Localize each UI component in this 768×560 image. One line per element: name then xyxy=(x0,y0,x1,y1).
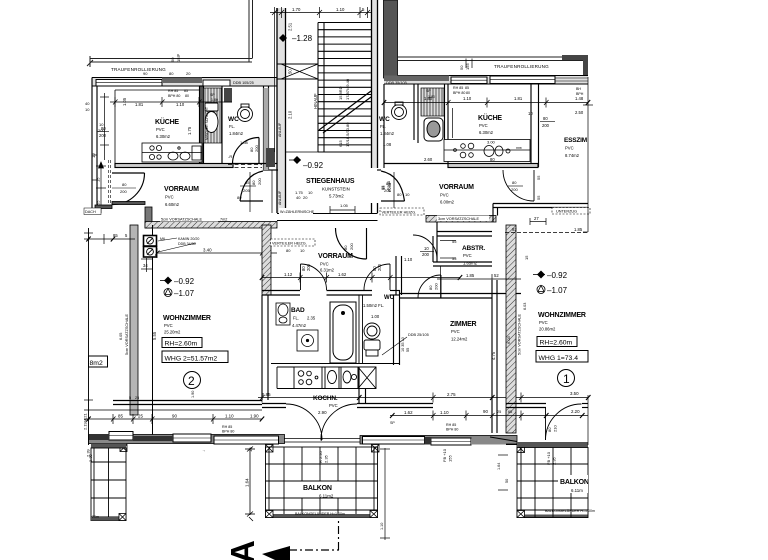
svg-text:4.47m2: 4.47m2 xyxy=(292,323,307,328)
hatched wall below vorraum right xyxy=(426,216,496,223)
top wall band right flat core xyxy=(384,76,588,85)
room label 8m2 cut at left edge xyxy=(89,356,108,367)
svg-text:KÜCHE: KÜCHE xyxy=(478,113,502,122)
dim 1.85 52 below abstr xyxy=(437,274,521,284)
svg-text:10: 10 xyxy=(99,122,104,127)
svg-text:1.90: 1.90 xyxy=(250,414,259,419)
label W=ZAEHLERNISCHE xyxy=(279,208,313,214)
shaft with vertical hatch (left) xyxy=(204,88,222,143)
door arc right flat entry xyxy=(377,170,405,212)
svg-text:90: 90 xyxy=(143,71,148,76)
washing machine bad xyxy=(297,330,318,351)
left flat outer west wall upper xyxy=(92,78,97,212)
label 5cm VORSATZSCHALE xyxy=(160,216,218,222)
svg-text:1.84m2: 1.84m2 xyxy=(229,131,244,136)
svg-text:80: 80 xyxy=(185,94,189,98)
extra dim tick slashes row y102 and others xyxy=(86,100,590,422)
svg-text:1.65m2: 1.65m2 xyxy=(463,261,478,266)
svg-text:85: 85 xyxy=(113,233,118,238)
svg-text:10 35 10: 10 35 10 xyxy=(401,337,405,352)
svg-text:KOCHN.: KOCHN. xyxy=(313,395,338,402)
svg-text:KAMIN 20/20: KAMIN 20/20 xyxy=(178,237,199,241)
fridge symbol with X xyxy=(358,367,376,389)
dim 80 small upper left of vorraum xyxy=(286,248,305,253)
wc right door labels xyxy=(381,181,392,193)
svg-text:15: 15 xyxy=(524,255,529,260)
dim 50/155 rotated right stair area xyxy=(459,63,470,70)
balcony left bottom posts xyxy=(119,514,126,521)
balcony right posts xyxy=(517,511,525,518)
toilet right flat (dark) xyxy=(424,118,443,141)
svg-text:25: 25 xyxy=(135,396,139,400)
svg-text:1.10: 1.10 xyxy=(336,7,345,12)
eaves outline top-left (TRAUFE) xyxy=(87,0,253,67)
window sill inner lines top band xyxy=(96,80,555,442)
svg-text:1.80: 1.80 xyxy=(211,98,218,102)
svg-text:1.00: 1.00 xyxy=(371,314,380,319)
stove right flat xyxy=(454,143,474,158)
svg-text:PVC: PVC xyxy=(539,320,548,325)
svg-text:1.80: 1.80 xyxy=(428,95,435,99)
small tick near balcony bottom left xyxy=(249,517,253,521)
room label WOHNZIMMER left xyxy=(163,315,211,335)
svg-text:↓: ↓ xyxy=(201,450,206,452)
room label STIEGENHAUS xyxy=(306,178,355,199)
kitchen counter left flat xyxy=(142,143,202,162)
svg-text:1.62: 1.62 xyxy=(404,410,413,415)
svg-text:200: 200 xyxy=(542,123,550,128)
room label ZIMMER xyxy=(450,321,477,342)
svg-text:5cm VORSATZSCHALE: 5cm VORSATZSCHALE xyxy=(125,313,129,355)
svg-text:17/87/49.40: 17/87/49.40 xyxy=(345,78,350,100)
window dim 80/200 right xyxy=(540,116,555,128)
svg-text:1.62: 1.62 xyxy=(338,272,347,277)
abstr top wall xyxy=(437,232,492,237)
svg-text:25.20m2: 25.20m2 xyxy=(164,330,181,335)
svg-text:RH 85: RH 85 xyxy=(446,423,456,427)
svg-text:55: 55 xyxy=(452,239,457,244)
svg-text:80: 80 xyxy=(343,245,348,250)
door arc kueche right to vorraum xyxy=(503,170,534,201)
svg-text:2.39: 2.39 xyxy=(88,453,93,462)
esszimmer/wohnzimmer wall with UNTERZUG xyxy=(516,204,588,208)
svg-text:80: 80 xyxy=(251,180,256,185)
wall kueche west lining xyxy=(115,90,200,167)
svg-text:8.74m2: 8.74m2 xyxy=(565,153,580,158)
svg-text:1.05: 1.05 xyxy=(340,203,349,208)
kamin boxes xyxy=(144,236,157,258)
kitchen counter right flat xyxy=(444,140,530,162)
svg-text:1: 1 xyxy=(563,372,570,386)
vertical dim line west of vorraum xyxy=(96,162,106,213)
top wall band left flat core xyxy=(92,78,277,87)
balcony right labels xyxy=(545,475,595,513)
wall dark segment right of stair xyxy=(384,76,449,82)
svg-text:6.05: 6.05 xyxy=(119,333,123,340)
svg-text:6.00m2: 6.00m2 xyxy=(440,200,455,205)
kitchen counter band center (left flat Kochnische) xyxy=(271,364,400,389)
svg-text:2.75: 2.75 xyxy=(447,392,456,397)
svg-text:200: 200 xyxy=(99,133,107,138)
svg-text:55: 55 xyxy=(96,200,101,205)
svg-text:PVC: PVC xyxy=(440,193,449,198)
stair labels rotated xyxy=(278,22,350,205)
wall stub between vorraum right and esszimmer xyxy=(493,204,516,223)
svg-text:DDB 105/25: DDB 105/25 xyxy=(233,81,254,85)
left flat right dim column (x250 corridor) verticals xyxy=(271,170,273,213)
svg-text:15: 15 xyxy=(96,177,101,182)
dim row y 56 right flat small ticks xyxy=(466,59,472,69)
center-west hatched wall (vorraum/wohnzimmer divider) xyxy=(262,225,271,295)
landing floor line xyxy=(286,151,319,153)
room label ESSZIMMER xyxy=(564,137,587,158)
wall piece between xyxy=(425,437,432,445)
svg-text:2.20: 2.20 xyxy=(571,409,580,414)
svg-text:WOHNZIMMER: WOHNZIMMER xyxy=(538,312,586,319)
vertical dim line right of left balcony xyxy=(380,448,390,540)
svg-text:200: 200 xyxy=(257,178,262,185)
label KOCHN xyxy=(313,395,338,415)
svg-text:4.75: 4.75 xyxy=(491,351,496,360)
svg-text:WC: WC xyxy=(228,116,239,123)
svg-text:1.05: 1.05 xyxy=(122,97,127,106)
svg-text:–0.92: –0.92 xyxy=(174,277,195,286)
window top WC left xyxy=(203,80,230,86)
svg-text:1.08: 1.08 xyxy=(383,142,392,147)
kochn bottom wall and door arcs to balcony xyxy=(262,404,433,408)
svg-text:6.30m2: 6.30m2 xyxy=(479,130,494,135)
svg-text:FB +10: FB +10 xyxy=(442,448,447,462)
svg-text:–1.07: –1.07 xyxy=(547,286,568,295)
svg-text:TRAUFENROLLIERUNG: TRAUFENROLLIERUNG xyxy=(111,67,166,72)
wall wc east side dark block xyxy=(224,88,232,103)
rotated dim 1B/155 left flat bottom xyxy=(201,447,253,452)
top wall band right flat xyxy=(384,76,588,85)
west exterior wall at vorraum level xyxy=(95,202,152,229)
wall right of shaft xyxy=(445,84,449,164)
dim 3.40 line xyxy=(155,248,277,258)
small texts left flat top window xyxy=(168,87,584,102)
balcony left top attach band xyxy=(91,444,126,449)
svg-text:92: 92 xyxy=(512,227,517,232)
long hatched wall under vorraum (Vorsatzschale) xyxy=(145,222,277,229)
center-west wall lower continuation xyxy=(262,295,268,400)
svg-text:1.64: 1.64 xyxy=(497,463,501,470)
entry door labels xyxy=(251,178,410,197)
svg-text:A: A xyxy=(224,540,261,560)
dim small marks near stair bottom (1.05) xyxy=(330,206,355,214)
stove kochnische xyxy=(294,367,322,389)
svg-text:WHG 2=51.57m2: WHG 2=51.57m2 xyxy=(165,356,218,363)
svg-text:RH=2.60m: RH=2.60m xyxy=(540,340,573,347)
svg-text:BPH 80: BPH 80 xyxy=(446,428,458,432)
svg-text:80: 80 xyxy=(512,180,517,185)
window top-left kitchen xyxy=(96,80,162,87)
svg-text:BALKON: BALKON xyxy=(560,479,589,486)
svg-text:DACH: DACH xyxy=(85,210,96,214)
window bottom zimmer xyxy=(363,437,425,445)
door arc left flat entry xyxy=(240,170,278,212)
svg-text:1.12: 1.12 xyxy=(284,272,293,277)
svg-text:PVC: PVC xyxy=(156,127,165,132)
rotated dim FB+10/155 under zimmer window xyxy=(442,448,453,462)
window bottom 3 (wide) xyxy=(214,436,279,444)
label VERTEILER HEIZG left-lower (dashed box) xyxy=(271,239,316,246)
svg-text:65: 65 xyxy=(508,410,512,414)
svg-text:1.10: 1.10 xyxy=(404,257,413,262)
svg-text:ANLAUF: ANLAUF xyxy=(278,122,282,137)
svg-text:FL.: FL. xyxy=(229,124,235,129)
svg-text:1.85: 1.85 xyxy=(574,227,583,232)
svg-text:80: 80 xyxy=(169,71,174,76)
svg-text:x: x xyxy=(177,52,179,57)
svg-text:2.51: 2.51 xyxy=(288,22,293,31)
svg-text:BALKONGELÄNDER H=1.00m: BALKONGELÄNDER H=1.00m xyxy=(545,509,595,513)
svg-text:W=ZÄHLERNISCHE: W=ZÄHLERNISCHE xyxy=(280,210,315,214)
balcony left narrow xyxy=(91,448,126,521)
toilet left flat xyxy=(205,103,218,133)
svg-text:6.85: 6.85 xyxy=(262,392,271,397)
dim 85 5 top of west wall xyxy=(113,233,128,238)
zimmer door label xyxy=(428,283,439,290)
top wall band left flat with windows xyxy=(92,78,277,87)
svg-text:15.8RD: 15.8RD xyxy=(338,86,343,100)
svg-text:1.90: 1.90 xyxy=(191,391,195,398)
courtyard inner bottom edge xyxy=(398,57,589,61)
svg-text:27: 27 xyxy=(534,216,539,221)
svg-text:205: 205 xyxy=(384,188,391,193)
svg-text:BALKONGELÄNDER H=1.00m: BALKONGELÄNDER H=1.00m xyxy=(295,512,345,516)
dim row y420 left flat xyxy=(84,414,262,424)
stairwell left wall xyxy=(277,8,286,213)
west wall lining band (5cm Vorsatzschale) xyxy=(130,225,153,440)
dims bottom right flat verticals xyxy=(498,455,508,490)
kueche right door label 80/200 xyxy=(508,175,541,200)
window top right kitchen 2 xyxy=(490,76,555,84)
svg-text:PVC: PVC xyxy=(479,123,488,128)
svg-text:85: 85 xyxy=(245,180,250,185)
room label WC left xyxy=(228,116,244,136)
balcony right attach band xyxy=(517,442,588,447)
svg-text:20: 20 xyxy=(303,195,308,200)
wohnzimmer right west wall hatched xyxy=(506,225,516,433)
window bottom 2 xyxy=(173,434,211,442)
svg-text:1.84m2: 1.84m2 xyxy=(380,131,395,136)
box WHG 1=73.45m2 right (cut) xyxy=(536,351,588,363)
room label VORRAUM left xyxy=(164,186,199,207)
svg-text:RH 85: RH 85 xyxy=(453,86,463,90)
dim ticks along y102 left (1.05 mark) xyxy=(92,155,97,180)
wall above bad (y295 from x262-400) drawn above; zimmer top wall xyxy=(400,294,521,299)
svg-text:10: 10 xyxy=(85,107,90,112)
kochn east wall xyxy=(359,367,366,403)
balcony center (left flat) frame xyxy=(266,447,378,518)
dim verticals right flat wohnzimmer east x588 lower xyxy=(587,395,589,445)
svg-text:6.11m: 6.11m xyxy=(571,488,583,493)
toilet lower wc xyxy=(364,323,380,356)
svg-text:10: 10 xyxy=(424,246,429,251)
svg-text:MISCHER SCHACHT: MISCHER SCHACHT xyxy=(205,107,209,140)
svg-text:10: 10 xyxy=(405,192,410,197)
svg-text:40: 40 xyxy=(296,195,301,200)
corner posts black X squares xyxy=(120,445,525,453)
svg-text:RH=2.60m: RH=2.60m xyxy=(165,341,198,348)
svg-text:BPH: BPH xyxy=(576,92,584,96)
svg-text:1.64: 1.64 xyxy=(245,478,250,487)
level marker -1.07 wohnzimmer left xyxy=(164,289,195,299)
svg-text:VORRAUM: VORRAUM xyxy=(439,184,474,191)
svg-text:1.10: 1.10 xyxy=(440,410,449,415)
svg-text:1.81: 1.81 xyxy=(135,102,144,107)
stairwell right wall xyxy=(372,0,378,213)
svg-text:20.86m2: 20.86m2 xyxy=(539,327,556,332)
svg-text:50: 50 xyxy=(505,479,509,483)
svg-text:80: 80 xyxy=(397,192,402,197)
svg-text:10: 10 xyxy=(308,190,313,195)
kueche door label 80/200 xyxy=(112,182,136,194)
svg-text:3.50: 3.50 xyxy=(570,391,579,396)
svg-text:***: *** xyxy=(516,147,522,153)
svg-text:80: 80 xyxy=(490,157,495,162)
bottom wall of lower vorraum xyxy=(262,291,400,296)
svg-text:20: 20 xyxy=(186,71,191,76)
bathtub xyxy=(330,302,356,363)
svg-text:80: 80 xyxy=(547,427,552,432)
svg-text:50: 50 xyxy=(288,69,293,74)
door arc wc left xyxy=(233,138,260,165)
dim 34 vertical xyxy=(141,258,152,272)
svg-text:VORRAUM: VORRAUM xyxy=(318,253,353,260)
svg-text:6.03: 6.03 xyxy=(523,303,527,310)
balcony center bottom rail xyxy=(266,514,378,518)
svg-text:TRAUFENROLLIERUNG: TRAUFENROLLIERUNG xyxy=(494,64,549,69)
balcony left bottom rail xyxy=(91,517,126,521)
svg-text:1.10: 1.10 xyxy=(225,414,234,419)
left edge vertical dim line xyxy=(84,228,93,445)
wall under kueche/wc xyxy=(115,164,277,168)
svg-text:6.60m2: 6.60m2 xyxy=(165,202,180,207)
dim 1.75/10 row above niche xyxy=(295,190,349,208)
box RH=2.60m left xyxy=(162,338,202,348)
stair treads xyxy=(318,23,372,153)
right flat: wc room walls xyxy=(384,84,418,168)
svg-text:ABSTR.: ABSTR. xyxy=(462,245,485,252)
vertical dim column between vorraum and stair (x 274.5) xyxy=(274,18,276,152)
window top esszimmer sill lines xyxy=(555,77,588,79)
box RH=2.60m right xyxy=(537,337,577,347)
svg-text:6.11m2: 6.11m2 xyxy=(319,494,334,499)
svg-text:PVC: PVC xyxy=(164,323,173,328)
svg-text:SP: SP xyxy=(210,93,215,97)
svg-text:2.10: 2.10 xyxy=(288,110,293,119)
svg-text:–0.92: –0.92 xyxy=(303,161,324,170)
right flat vertical dim column x 440 (zimmer) xyxy=(440,266,442,298)
svg-text:UNTERZUG: UNTERZUG xyxy=(556,210,577,214)
room label WC right xyxy=(379,116,395,147)
shaft right flat with hatch xyxy=(421,88,444,116)
svg-text:BPH 80: BPH 80 xyxy=(222,430,234,434)
svg-text:50: 50 xyxy=(170,57,175,62)
room label WOHNZIMMER right xyxy=(538,312,586,332)
svg-text:200: 200 xyxy=(434,283,439,290)
corridor wall hatch strip xyxy=(264,88,269,170)
svg-text:R 2.20: R 2.20 xyxy=(318,450,323,463)
svg-text:8m2: 8m2 xyxy=(90,360,103,367)
svg-text:PVC: PVC xyxy=(320,262,329,267)
svg-text:ZIMMER: ZIMMER xyxy=(450,321,477,328)
svg-text:BH: BH xyxy=(576,87,581,91)
balcony center bottom posts xyxy=(266,511,378,518)
bottom wall band left flat base xyxy=(89,435,518,445)
svg-text:85: 85 xyxy=(184,89,188,93)
label DDB 25/105 with leader xyxy=(382,333,429,355)
svg-text:–1.28: –1.28 xyxy=(292,34,313,43)
svg-text:2.50: 2.50 xyxy=(575,110,584,115)
svg-text:155: 155 xyxy=(448,455,453,462)
door arc vorraum to wc (right leaf) xyxy=(364,264,390,290)
svg-text:80: 80 xyxy=(286,248,291,253)
wc door dims xyxy=(228,140,259,159)
svg-text:RH 85: RH 85 xyxy=(222,425,232,429)
zimmer east wall xyxy=(492,280,497,433)
svg-text:85: 85 xyxy=(465,86,469,90)
svg-text:1B: 1B xyxy=(248,447,253,452)
wall wc east xyxy=(394,290,400,365)
room label KUECHE left xyxy=(155,117,179,139)
label DACH xyxy=(84,208,101,215)
level marker -0.92 wohnzimmer left xyxy=(160,277,195,287)
svg-text:2: 2 xyxy=(188,374,195,388)
rotated labels west wall xyxy=(119,313,157,355)
svg-text:BPH 80: BPH 80 xyxy=(168,94,180,98)
stairwell right wall core xyxy=(372,0,378,168)
vorraum right top dim xyxy=(424,157,495,162)
abstr door label 10/200 xyxy=(404,246,434,262)
svg-text:PVC: PVC xyxy=(329,403,338,408)
landing dimension arrows xyxy=(277,64,318,79)
balcony door arc right flat xyxy=(546,404,582,440)
svg-text:ESSZIM: ESSZIM xyxy=(564,137,587,144)
svg-text:200: 200 xyxy=(120,189,127,194)
vertical dim line right flat interior x452 xyxy=(452,108,454,138)
svg-text:200: 200 xyxy=(349,243,354,250)
svg-text:FL.: FL. xyxy=(293,316,299,321)
svg-text:VERTEILER HEIZG.: VERTEILER HEIZG. xyxy=(272,242,307,246)
balcony right bottom rail xyxy=(517,515,588,519)
stairwell left wall core xyxy=(277,8,286,213)
room label KUECHE right xyxy=(478,113,502,135)
stair top dimension line 5/1.70/1.10/5 xyxy=(270,7,372,18)
dim texts misc top left column xyxy=(85,101,105,133)
svg-text:5.55: 5.55 xyxy=(152,331,157,340)
balcony center labels xyxy=(295,482,349,517)
svg-text:2.60: 2.60 xyxy=(424,157,433,162)
labels KAMIN / DDB xyxy=(160,237,199,246)
stove left flat xyxy=(149,145,161,159)
room label VORRAUM right xyxy=(439,184,474,205)
door arc vorraum to bad (left leaf) xyxy=(301,264,327,290)
svg-text:90: 90 xyxy=(172,414,177,419)
svg-text:2.35: 2.35 xyxy=(307,316,316,321)
dim texts above kueche windows left xyxy=(143,71,191,76)
room label VORRAUM lower xyxy=(318,253,353,273)
level marker -0.92 right xyxy=(533,271,568,281)
svg-text:3cm VORSATZSCHALE: 3cm VORSATZSCHALE xyxy=(438,217,480,221)
wall wc/stair corridor xyxy=(222,86,269,170)
svg-text:WOHNZIMMER: WOHNZIMMER xyxy=(163,315,211,322)
dim 6.85 row (y397) xyxy=(258,393,588,403)
svg-text:KÜCHE: KÜCHE xyxy=(155,117,179,126)
